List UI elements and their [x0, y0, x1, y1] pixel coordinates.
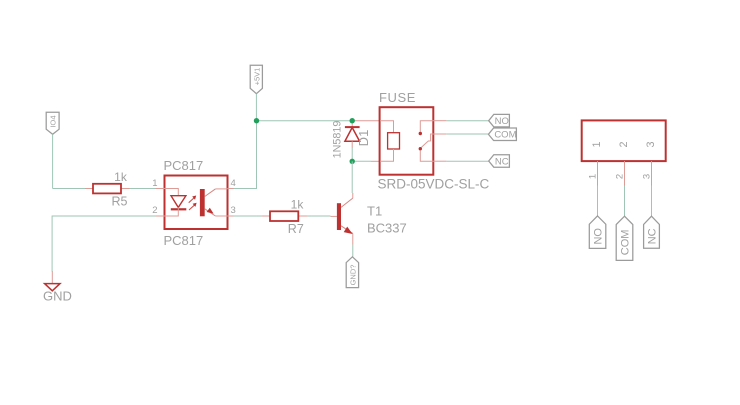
svg-text:D1: D1 — [356, 130, 371, 147]
svg-text:GND?: GND? — [348, 265, 357, 286]
svg-text:IO4: IO4 — [48, 115, 57, 127]
svg-text:2: 2 — [152, 205, 157, 216]
wire to COM terminal flag — [624, 186, 626, 217]
wire relay NC pin — [433, 160, 489, 162]
svg-text:1N5819: 1N5819 — [331, 121, 343, 159]
svg-text:1k: 1k — [114, 170, 128, 184]
optocoupler OK1 PC817 — [152, 176, 236, 230]
svg-text:1: 1 — [152, 178, 157, 189]
pin 1 stub — [597, 161, 599, 185]
svg-text:PC817: PC817 — [164, 233, 204, 248]
wire IO4 drop — [52, 134, 54, 188]
wire R7 to base — [307, 215, 331, 217]
wire 5V drop — [255, 94, 257, 121]
svg-text:NO: NO — [593, 228, 605, 245]
relay coil — [380, 121, 400, 162]
wire relay COM pin — [433, 133, 488, 135]
wire optocoupler pin2 to GND — [52, 216, 155, 272]
svg-text:1: 1 — [591, 141, 603, 147]
svg-text:COM: COM — [494, 130, 516, 141]
svg-text:NC: NC — [495, 156, 509, 167]
wire to NO terminal flag — [597, 186, 599, 216]
resistor R7 — [262, 211, 307, 221]
pin 3 stub — [651, 161, 653, 185]
wire pin4 riser to 5V rail — [234, 121, 257, 189]
connector J1 screw terminal — [582, 120, 666, 185]
relay contact NO — [419, 121, 433, 136]
pin 2 stub — [156, 215, 165, 217]
svg-text:3: 3 — [641, 174, 652, 179]
wire D1 anode to junction — [351, 148, 353, 161]
svg-text:NC: NC — [647, 228, 659, 244]
svg-text:NO: NO — [495, 116, 509, 127]
pin 4 stub — [228, 188, 234, 190]
supply flag +5V1 — [250, 65, 262, 93]
svg-text:2: 2 — [614, 174, 625, 179]
svg-text:SRD-05VDC-SL-C: SRD-05VDC-SL-C — [378, 177, 490, 192]
net flag COM (terminal) — [616, 216, 633, 260]
wire R5 to optocoupler pin1 — [130, 188, 156, 190]
svg-text:R5: R5 — [112, 195, 128, 209]
net flag NC — [489, 155, 510, 168]
wire 5V rail — [257, 120, 353, 122]
svg-text:1k: 1k — [291, 198, 305, 212]
svg-text:3: 3 — [645, 141, 657, 147]
net flag COM — [488, 128, 516, 141]
ground flag GND? — [346, 257, 358, 288]
net flag NO (terminal) — [589, 216, 606, 249]
svg-text:GND: GND — [43, 289, 72, 304]
light arrow 2 — [189, 203, 197, 210]
svg-text:T1: T1 — [367, 204, 382, 219]
pin 1 stub — [156, 188, 165, 190]
wire rail to relay coil pin1 — [353, 120, 380, 122]
pin 2 stub — [624, 161, 626, 185]
LED inside PC817 — [165, 189, 187, 217]
wire IO4 to R5 — [53, 188, 86, 190]
wire to NC terminal flag — [651, 186, 653, 217]
wire pin3 to R7 — [234, 215, 263, 217]
pin 3 stub — [228, 215, 234, 217]
svg-text:3: 3 — [231, 205, 236, 216]
net flag NO — [489, 114, 510, 127]
wire emitter to GND flag — [352, 245, 354, 257]
ground GND — [43, 271, 72, 304]
svg-text:4: 4 — [231, 178, 236, 189]
svg-text:FUSE: FUSE — [379, 90, 416, 105]
svg-text:2: 2 — [618, 141, 630, 147]
wire relay NO pin — [433, 120, 489, 122]
diode D1 1N5819 — [345, 121, 360, 148]
node D1 bottom junction — [350, 159, 355, 164]
svg-text:1: 1 — [587, 174, 598, 179]
wire junction to transistor collector — [351, 161, 353, 193]
resistor R5 — [85, 184, 130, 194]
node D1 top junction — [350, 118, 355, 123]
svg-text:COM: COM — [620, 230, 632, 256]
svg-text:BC337: BC337 — [367, 221, 407, 236]
relay contact NC — [419, 147, 433, 161]
svg-text:PC817: PC817 — [164, 158, 204, 173]
net flag NC (terminal) — [644, 216, 660, 248]
svg-text:R7: R7 — [288, 222, 304, 236]
svg-text:+5V1: +5V1 — [252, 68, 261, 86]
node 5V junction — [254, 118, 259, 123]
relay FUSE SRD-05VDC-SL-C — [380, 107, 434, 175]
wire junction to relay coil pin2 — [352, 160, 371, 162]
transistor T1 BC337 — [331, 193, 353, 245]
net flag IO4 — [46, 112, 59, 134]
light arrow 1 — [189, 196, 197, 203]
relay armature COM — [422, 134, 434, 147]
phototransistor inside PC817 — [200, 189, 228, 216]
